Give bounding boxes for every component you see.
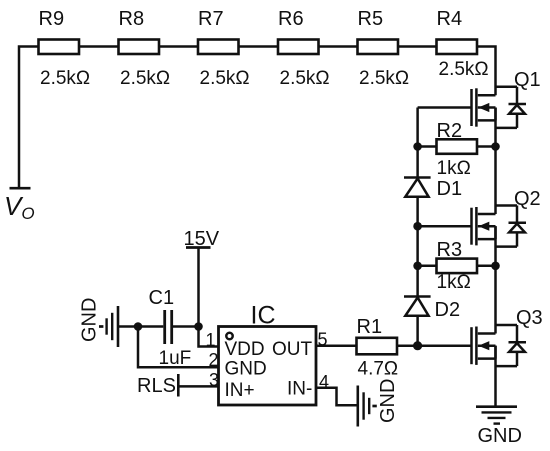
svg-text:2.5kΩ: 2.5kΩ xyxy=(40,68,90,89)
svg-text:4: 4 xyxy=(319,372,329,392)
svg-text:R9: R9 xyxy=(39,8,65,30)
resistor R4 xyxy=(437,40,478,55)
svg-text:VDD: VDD xyxy=(225,339,265,360)
wire: D1 anode down to Q2 gate node xyxy=(416,197,419,226)
junction: Q2 gate node xyxy=(413,222,422,231)
wire: Q1 gate from left rail xyxy=(418,106,472,109)
body diode of Q3 xyxy=(496,325,527,366)
wire: top horizontal bus from Vo rail through R9-R4 to Q1 drain corner xyxy=(19,47,496,188)
resistor R8 xyxy=(119,40,160,55)
value 2.5kΩ (R6) xyxy=(280,68,330,89)
resistor R1 xyxy=(357,338,398,355)
wire: Q2 gate from left rail xyxy=(418,225,472,228)
wire: ground to C1 left node xyxy=(118,325,138,328)
svg-text:GND: GND xyxy=(79,298,101,342)
resistor R5 xyxy=(358,40,399,55)
label R6 xyxy=(278,8,304,30)
svg-text:IC: IC xyxy=(251,302,276,330)
label Q2 xyxy=(514,188,541,210)
op-amp IC (box) xyxy=(219,327,317,406)
label R2 xyxy=(437,120,463,142)
ground (Q3 source) xyxy=(476,407,517,424)
svg-text:15V: 15V xyxy=(184,228,220,250)
wire: Q3 gate from R1 node xyxy=(418,344,472,347)
junction: R2 left xyxy=(413,142,422,151)
wire: pin 5 OUT to R1 xyxy=(316,344,357,347)
value 1uF (C1) xyxy=(159,348,192,369)
value 2.5kΩ (R9) xyxy=(40,68,90,89)
wire: R3 row xyxy=(418,265,496,268)
value 2.5kΩ (R7) xyxy=(200,68,250,89)
value 4.7Ω (R1) xyxy=(358,359,399,380)
svg-text:GND: GND xyxy=(478,425,522,447)
pin 2 xyxy=(209,350,219,370)
svg-text:4.7Ω: 4.7Ω xyxy=(358,359,399,380)
svg-text:R5: R5 xyxy=(358,8,384,30)
supply 15V bar xyxy=(186,246,211,249)
svg-text:C1: C1 xyxy=(149,287,175,309)
label C1 xyxy=(149,287,175,309)
label R7 xyxy=(198,8,224,30)
wire: C1 left node down and into pin 2 xyxy=(138,327,219,368)
svg-text:2.5kΩ: 2.5kΩ xyxy=(439,59,489,80)
svg-text:D1: D1 xyxy=(437,178,463,200)
junction: R3 right xyxy=(491,262,500,271)
svg-text:2.5kΩ: 2.5kΩ xyxy=(200,68,250,89)
ground (IN- pin 4) xyxy=(358,386,377,427)
svg-text:Q3: Q3 xyxy=(516,307,543,329)
wire: C1 left node to capacitor xyxy=(138,325,163,328)
svg-text:R6: R6 xyxy=(278,8,304,30)
pin 4 xyxy=(319,372,329,392)
pin 1 xyxy=(206,330,216,350)
wire: R2 right node down to Q2 drain xyxy=(494,147,497,215)
input RLS terminal bar xyxy=(177,374,180,397)
svg-text:R1: R1 xyxy=(357,316,383,338)
svg-text:IN-: IN- xyxy=(287,379,312,400)
label RLS xyxy=(137,375,176,397)
wire: left rail R3 node to D2 cathode xyxy=(416,266,419,297)
label IC xyxy=(251,302,276,330)
wire: R3 right node down to Q3 drain xyxy=(494,266,497,334)
svg-text:R3: R3 xyxy=(437,239,463,261)
svg-text:Q1: Q1 xyxy=(514,69,541,91)
value 2.5kΩ (R4) xyxy=(439,59,489,80)
label R1 xyxy=(357,316,383,338)
wire: RLS to pin 3 xyxy=(178,385,218,388)
svg-text:R7: R7 xyxy=(198,8,224,30)
label R4 xyxy=(437,8,463,30)
svg-text:Q2: Q2 xyxy=(514,188,541,210)
wire: Q3 source down to ground xyxy=(494,346,497,407)
wire: left rail R2 node to D1 cathode xyxy=(416,147,419,178)
label R5 xyxy=(358,8,384,30)
resistor R2 xyxy=(437,139,478,154)
svg-text:2: 2 xyxy=(209,350,219,370)
junction: R3 left xyxy=(413,262,422,271)
wire: Q2 source down to R3 right node xyxy=(494,226,497,266)
ground (near C1) xyxy=(99,306,118,347)
label R8 xyxy=(119,8,145,30)
label Q1 xyxy=(514,69,541,91)
svg-text:GND: GND xyxy=(225,359,267,380)
junction: R1 output node xyxy=(413,341,422,350)
svg-text:GND: GND xyxy=(377,379,399,423)
junction: VDD node xyxy=(194,322,203,331)
junction: R2 right xyxy=(491,142,500,151)
body diode of Q1 xyxy=(496,87,527,128)
body diode of Q2 xyxy=(496,206,527,247)
svg-text:2.5kΩ: 2.5kΩ xyxy=(120,68,170,89)
wire: R1 to output node xyxy=(397,344,418,347)
label D2 xyxy=(435,299,461,321)
wire: VDD node down and into pin 1 xyxy=(199,327,219,347)
value 1kΩ (R3) xyxy=(437,272,471,293)
capacitor C1 xyxy=(165,310,172,344)
value 2.5kΩ (R5) xyxy=(359,68,409,89)
junction: C1 left node xyxy=(134,322,143,331)
label D1 xyxy=(437,178,463,200)
wire: D2 anode down to R1 output node xyxy=(416,316,419,346)
label Vo xyxy=(4,191,35,223)
transistor Q2 xyxy=(472,207,496,245)
value 1kΩ (R2) xyxy=(437,158,471,179)
svg-text:D2: D2 xyxy=(435,299,461,321)
svg-text:VO: VO xyxy=(4,191,35,223)
transistor Q1 xyxy=(472,88,496,126)
label R3 xyxy=(437,239,463,261)
svg-text:1kΩ: 1kΩ xyxy=(437,158,471,179)
pin 3 xyxy=(209,370,219,390)
svg-text:1: 1 xyxy=(206,330,216,350)
svg-text:3: 3 xyxy=(209,370,219,390)
diode D1 xyxy=(404,178,431,197)
svg-text:2.5kΩ: 2.5kΩ xyxy=(359,68,409,89)
label GND (Q3 ground) xyxy=(478,425,522,447)
svg-text:OUT: OUT xyxy=(272,339,313,360)
pin 5 xyxy=(318,330,328,350)
svg-text:R8: R8 xyxy=(119,8,145,30)
svg-text:R4: R4 xyxy=(437,8,463,30)
label GND (rotated, near C1) xyxy=(79,298,101,342)
wire: left rail Q1 gate to R2 left node xyxy=(416,108,419,147)
svg-text:1kΩ: 1kΩ xyxy=(437,272,471,293)
diode D2 xyxy=(404,297,431,316)
wire: Q1 source down to R2 right node xyxy=(494,108,497,147)
value 2.5kΩ (R8) xyxy=(120,68,170,89)
resistor R9 xyxy=(39,40,80,55)
svg-text:RLS: RLS xyxy=(137,375,176,397)
label Q3 xyxy=(516,307,543,329)
wire: pin 4 IN- to ground xyxy=(316,388,357,406)
resistor R3 xyxy=(437,259,478,274)
wire: 15V down to VDD node xyxy=(197,248,200,327)
transistor Q3 xyxy=(472,327,496,365)
label R9 xyxy=(39,8,65,30)
label 15V xyxy=(184,228,220,250)
wire: capacitor to VDD node xyxy=(173,325,199,328)
resistor R7 xyxy=(198,40,239,55)
label GND (rotated, pin 4) xyxy=(377,379,399,423)
svg-text:1uF: 1uF xyxy=(159,348,192,369)
resistor R6 xyxy=(278,40,319,55)
terminal Vo (end bar) xyxy=(10,187,31,190)
wire: R2 row xyxy=(418,145,496,148)
svg-text:R2: R2 xyxy=(437,120,463,142)
svg-text:IN+: IN+ xyxy=(225,380,255,401)
svg-text:2.5kΩ: 2.5kΩ xyxy=(280,68,330,89)
wire: left rail Q2 gate to R3 left node xyxy=(416,226,419,266)
